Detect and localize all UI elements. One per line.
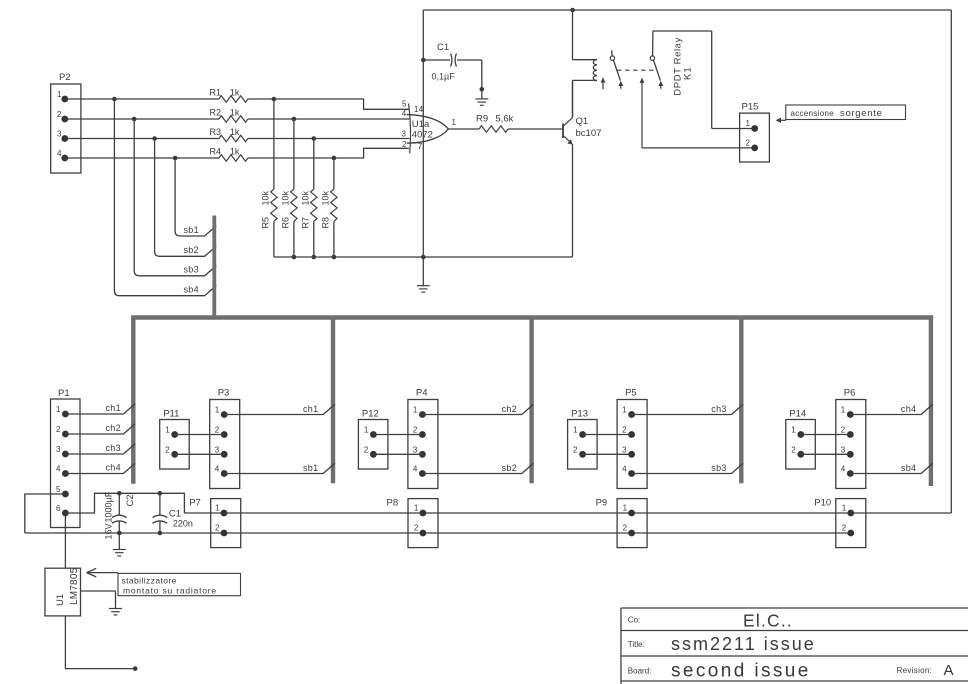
svg-text:bc107: bc107 bbox=[576, 128, 602, 139]
svg-text:P2: P2 bbox=[59, 72, 71, 83]
svg-text:sb4: sb4 bbox=[901, 463, 916, 473]
svg-text:montato su radiatore: montato su radiatore bbox=[123, 585, 217, 595]
svg-text:6: 6 bbox=[56, 504, 61, 513]
svg-text:1: 1 bbox=[364, 426, 369, 435]
svg-text:1: 1 bbox=[414, 504, 419, 513]
svg-text:10k: 10k bbox=[261, 190, 271, 205]
svg-text:2: 2 bbox=[364, 445, 369, 454]
svg-text:R6: R6 bbox=[281, 217, 291, 229]
svg-text:sb3: sb3 bbox=[711, 463, 726, 473]
svg-text:U1: U1 bbox=[55, 594, 66, 606]
svg-text:1: 1 bbox=[573, 426, 578, 435]
svg-text:16V: 16V bbox=[104, 523, 114, 539]
svg-text:3: 3 bbox=[56, 445, 61, 454]
svg-text:Board:: Board: bbox=[628, 667, 652, 676]
svg-text:Q1: Q1 bbox=[576, 116, 589, 127]
svg-text:3: 3 bbox=[622, 445, 627, 454]
svg-text:sb3: sb3 bbox=[184, 265, 199, 275]
svg-text:1: 1 bbox=[215, 504, 220, 513]
svg-text:P6: P6 bbox=[844, 388, 856, 399]
svg-text:2: 2 bbox=[622, 426, 627, 435]
svg-text:2: 2 bbox=[215, 426, 220, 435]
svg-text:Revision:: Revision: bbox=[897, 666, 933, 675]
svg-text:1: 1 bbox=[791, 426, 796, 435]
svg-text:1: 1 bbox=[215, 406, 220, 415]
svg-text:sb1: sb1 bbox=[303, 463, 318, 473]
svg-text:5: 5 bbox=[56, 485, 61, 494]
svg-text:Co:: Co: bbox=[628, 616, 640, 625]
svg-text:4072: 4072 bbox=[412, 129, 433, 140]
svg-text:1k: 1k bbox=[230, 127, 240, 137]
svg-text:P10: P10 bbox=[814, 498, 831, 509]
svg-text:5,6k: 5,6k bbox=[495, 114, 513, 125]
svg-text:1k: 1k bbox=[230, 108, 240, 118]
svg-text:ssm2211 issue: ssm2211 issue bbox=[671, 634, 816, 654]
svg-text:ch4: ch4 bbox=[106, 463, 121, 473]
svg-text:R3: R3 bbox=[210, 127, 222, 137]
svg-text:sorgente: sorgente bbox=[840, 108, 883, 119]
svg-text:1: 1 bbox=[842, 504, 847, 513]
svg-text:ch2: ch2 bbox=[106, 423, 121, 433]
svg-text:C1: C1 bbox=[437, 42, 449, 53]
svg-text:3: 3 bbox=[215, 445, 220, 454]
svg-text:1: 1 bbox=[622, 406, 627, 415]
svg-text:ch4: ch4 bbox=[901, 404, 916, 414]
svg-text:U1a: U1a bbox=[412, 119, 430, 130]
svg-text:1k: 1k bbox=[230, 147, 240, 157]
svg-text:accensione: accensione bbox=[791, 109, 835, 118]
svg-text:3: 3 bbox=[402, 129, 407, 138]
svg-text:ch3: ch3 bbox=[106, 443, 121, 453]
svg-text:14: 14 bbox=[414, 104, 424, 114]
svg-text:4: 4 bbox=[841, 465, 846, 474]
svg-text:sb4: sb4 bbox=[184, 285, 199, 295]
svg-text:P12: P12 bbox=[362, 409, 379, 420]
svg-text:4: 4 bbox=[402, 109, 407, 118]
svg-text:0,1µF: 0,1µF bbox=[432, 72, 456, 82]
svg-text:P7: P7 bbox=[189, 498, 201, 509]
svg-text:ch1: ch1 bbox=[303, 404, 318, 414]
svg-text:1: 1 bbox=[56, 405, 61, 414]
svg-text:R1: R1 bbox=[210, 88, 222, 98]
svg-text:1: 1 bbox=[413, 406, 418, 415]
svg-text:2: 2 bbox=[842, 524, 847, 533]
svg-text:2: 2 bbox=[573, 445, 578, 454]
svg-text:2: 2 bbox=[57, 110, 62, 119]
svg-text:2: 2 bbox=[791, 445, 796, 454]
svg-text:R7: R7 bbox=[301, 217, 311, 229]
svg-text:R5: R5 bbox=[261, 217, 271, 229]
svg-text:sb1: sb1 bbox=[184, 225, 199, 235]
svg-text:5: 5 bbox=[402, 99, 407, 108]
svg-text:4: 4 bbox=[57, 149, 62, 158]
svg-text:C2: C2 bbox=[125, 494, 136, 506]
svg-text:Title:: Title: bbox=[628, 640, 645, 649]
svg-text:ch2: ch2 bbox=[502, 404, 517, 414]
svg-text:2: 2 bbox=[414, 524, 419, 533]
svg-text:R2: R2 bbox=[210, 108, 222, 118]
svg-text:2: 2 bbox=[623, 524, 628, 533]
svg-text:P9: P9 bbox=[596, 498, 608, 509]
svg-text:2: 2 bbox=[413, 426, 418, 435]
svg-text:1: 1 bbox=[623, 504, 628, 513]
svg-text:P15: P15 bbox=[742, 102, 759, 113]
svg-text:4: 4 bbox=[413, 465, 418, 474]
svg-text:ch3: ch3 bbox=[711, 404, 726, 414]
svg-text:K1: K1 bbox=[683, 66, 694, 80]
svg-text:1: 1 bbox=[57, 90, 62, 99]
svg-text:P14: P14 bbox=[789, 409, 806, 420]
svg-text:2: 2 bbox=[841, 426, 846, 435]
svg-text:LM7805: LM7805 bbox=[69, 567, 80, 605]
svg-text:1k: 1k bbox=[230, 88, 240, 98]
svg-text:7: 7 bbox=[418, 141, 423, 151]
svg-text:R4: R4 bbox=[210, 147, 222, 157]
svg-text:10k: 10k bbox=[281, 190, 291, 205]
svg-text:ch1: ch1 bbox=[106, 403, 121, 413]
svg-text:sb2: sb2 bbox=[502, 463, 517, 473]
svg-text:10k: 10k bbox=[321, 190, 331, 205]
svg-text:1: 1 bbox=[746, 119, 751, 128]
svg-text:1000µF: 1000µF bbox=[104, 491, 114, 522]
svg-text:P4: P4 bbox=[416, 388, 428, 399]
svg-text:10k: 10k bbox=[301, 190, 311, 205]
svg-text:3: 3 bbox=[57, 130, 62, 139]
svg-text:El.C..: El.C.. bbox=[743, 611, 793, 631]
svg-text:2: 2 bbox=[746, 139, 751, 148]
svg-text:2: 2 bbox=[56, 425, 61, 434]
svg-text:A: A bbox=[944, 662, 954, 679]
svg-text:P5: P5 bbox=[625, 388, 637, 399]
svg-text:4: 4 bbox=[215, 465, 220, 474]
svg-text:3: 3 bbox=[413, 445, 418, 454]
svg-text:2: 2 bbox=[165, 445, 170, 454]
svg-text:3: 3 bbox=[841, 445, 846, 454]
svg-text:sb2: sb2 bbox=[184, 245, 199, 255]
svg-text:R8: R8 bbox=[321, 217, 331, 229]
svg-text:P13: P13 bbox=[571, 409, 588, 420]
svg-text:220n: 220n bbox=[173, 519, 193, 529]
svg-text:stabilizzatore: stabilizzatore bbox=[122, 576, 177, 586]
svg-text:4: 4 bbox=[622, 465, 627, 474]
svg-text:4: 4 bbox=[56, 465, 61, 474]
svg-text:1: 1 bbox=[452, 118, 457, 127]
svg-text:1: 1 bbox=[165, 426, 170, 435]
svg-text:second issue: second issue bbox=[671, 661, 811, 682]
svg-text:2: 2 bbox=[402, 140, 407, 149]
svg-text:2: 2 bbox=[215, 524, 220, 533]
svg-text:P11: P11 bbox=[163, 409, 179, 420]
svg-text:P3: P3 bbox=[218, 388, 230, 399]
svg-text:P1: P1 bbox=[58, 388, 70, 399]
svg-text:P8: P8 bbox=[387, 498, 399, 509]
svg-text:R9: R9 bbox=[476, 114, 488, 125]
svg-text:1: 1 bbox=[841, 406, 846, 415]
